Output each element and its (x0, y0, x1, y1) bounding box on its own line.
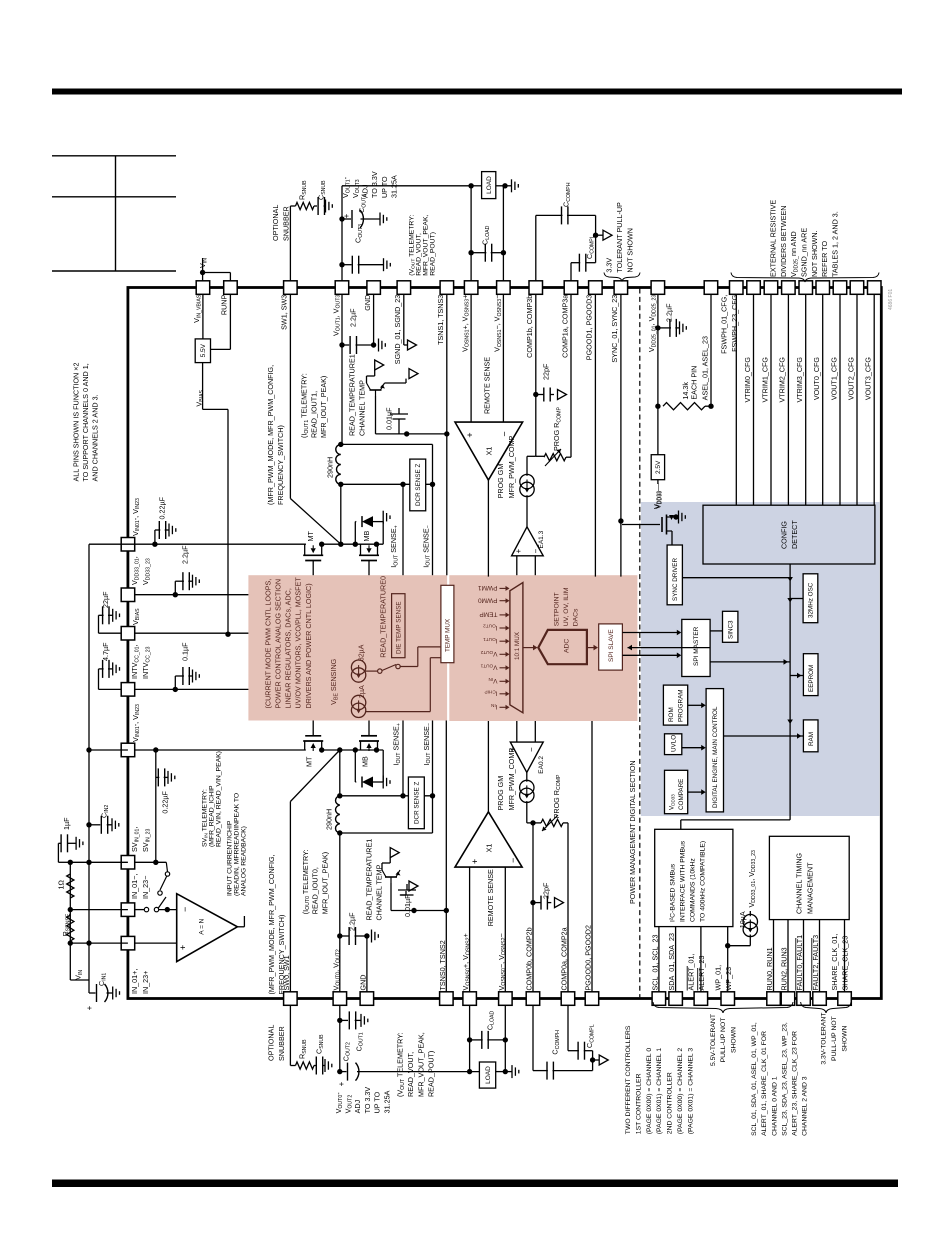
pin SHARE_CLK_01, (838, 992, 852, 1006)
brace 3.3V tolerant group (801, 1002, 851, 1013)
svg-text:DETECT: DETECT (790, 520, 799, 549)
link vin2 to svin (155, 750, 157, 862)
svg-text:DACs: DACs (572, 608, 579, 626)
pin ASEL_01, ASEL_23 (704, 281, 718, 295)
svg-text:MB: MB (362, 531, 371, 542)
svg-text:UP TO: UP TO (380, 176, 389, 198)
wire VIN01 lower rail (135, 749, 306, 751)
svg-text:PULL-UP NOT: PULL-UP NOT (720, 1018, 727, 1063)
pin VIN01-VIN23 (lower) (121, 743, 135, 757)
32MHz OSC box (803, 574, 818, 623)
capacitor COUT2 polarized (340, 1071, 347, 1073)
svg-text:MT: MT (306, 531, 315, 542)
svg-text:LOAD: LOAD (485, 1066, 492, 1084)
svg-text:+: + (514, 549, 523, 554)
svg-text:FREQUENCY_SWITCH): FREQUENCY_SWITCH) (276, 425, 285, 505)
svg-text:EA1.3: EA1.3 (538, 530, 545, 548)
DCR sense loop bottom (340, 795, 433, 797)
wire IN- row (135, 909, 145, 911)
load box top (482, 172, 496, 199)
DCR SENSE Z box top (410, 459, 426, 511)
svg-text:CHANNEL 0 AND 1: CHANNEL 0 AND 1 (771, 1076, 778, 1136)
capacitor 2.2uF vdd25 (658, 327, 671, 329)
svg-text:TO 3.3V: TO 3.3V (363, 1087, 372, 1114)
digital section dashed boundary (639, 289, 641, 998)
svg-text:SYNC DRIVER: SYNC DRIVER (672, 558, 679, 601)
svg-text:FAULT0, FAULT1: FAULT0, FAULT1 (795, 935, 804, 991)
svg-text:UV, OV, ILIM: UV, OV, ILIM (563, 587, 570, 626)
capacitor 0.01uF temp top (375, 396, 377, 434)
svg-text:READ_VIN, READ_VIN_PEAK): READ_VIN, READ_VIN_PEAK) (215, 751, 222, 847)
capacitor CLOAD top (471, 252, 486, 254)
SPI SLAVE box (599, 624, 623, 670)
label VDD33 under 2.5V (657, 480, 659, 484)
DCR SENSE Z box bottom (408, 777, 424, 829)
svg-text:32MHz OSC: 32MHz OSC (808, 582, 815, 618)
capacitor CIN1 polarized (88, 984, 90, 993)
blue digital section block (641, 502, 880, 816)
svg-text:PWM0: PWM0 (478, 597, 498, 604)
pink mux-adc section block (449, 575, 637, 721)
svg-text:PROG GM: PROG GM (496, 776, 505, 811)
svg-text:DCR SENSE Z: DCR SENSE Z (414, 782, 421, 824)
svg-text:5.5V-TOLERANT: 5.5V-TOLERANT (710, 1014, 717, 1066)
capacitor COUT1 (340, 1019, 348, 1021)
TEMP MUX box (441, 585, 454, 662)
pink analog section block (248, 575, 447, 720)
node X line with CCOMPL (595, 215, 597, 262)
RAM box (803, 720, 818, 752)
svg-text:SGND_nn ARE: SGND_nn ARE (800, 228, 809, 277)
COMP1b riser lower segment (535, 294, 537, 456)
pin VIN01-VIN23 (upper) (121, 538, 135, 552)
svin switches (165, 872, 169, 876)
svg-text:(PAGE 0X00) = CHANNEL 2: (PAGE 0X00) = CHANNEL 2 (677, 1048, 684, 1135)
svg-text:+: + (470, 859, 480, 864)
capacitor 2.2uF at VOUT1 inside (342, 344, 349, 346)
svg-text:EXTERNAL RESISTIVE: EXTERNAL RESISTIVE (769, 200, 778, 277)
svg-text:COMP0b, COMP2b: COMP0b, COMP2b (525, 927, 534, 990)
svg-text:FREQUENCY_SWITCH): FREQUENCY_SWITCH) (277, 915, 286, 995)
ground at diode top (382, 522, 384, 545)
PROG RCOMP resistor top (536, 455, 544, 457)
svg-text:VOUT2_CFG: VOUT2_CFG (846, 357, 855, 401)
pin PGOOD0, PGOOD2 (585, 992, 599, 1006)
VDD33 COMPARE box (665, 770, 688, 813)
svg-text:3.3V-TOLERANT: 3.3V-TOLERANT (821, 1013, 828, 1065)
svg-text:MFR_PWM_COMP: MFR_PWM_COMP (507, 436, 516, 499)
svg-text:AND CHANNELS 2 AND 3.: AND CHANNELS 2 AND 3. (91, 394, 100, 481)
wire VIN to RUNP (203, 272, 231, 274)
current source 2uA (351, 695, 365, 709)
capacitor 0.22uF at svin link (156, 776, 160, 778)
DIE TEMP SENSE box (392, 594, 405, 658)
header table lines (52, 155, 176, 157)
wire SW0 to snubber (289, 1005, 291, 1065)
SW node wire bottom (322, 749, 384, 751)
SGND triangle at comp node (596, 234, 603, 236)
svg-text:EEPROM: EEPROM (808, 665, 815, 692)
opamp X1 bottom (455, 812, 522, 867)
pin SW1, SW3 (284, 281, 298, 295)
pin V~OSNS1~+, V~OSNS3~+ (464, 281, 478, 295)
pin V~OSNS0~+, V~OSNS2~+ (463, 992, 477, 1006)
sync gating mosfet (622, 524, 660, 526)
resistor RSNUB bottom (296, 1062, 315, 1069)
svg-text:IN_23+: IN_23+ (141, 971, 150, 994)
SYNC DRIVER box (667, 545, 682, 605)
SPI MASTER box (682, 619, 710, 676)
pin COMP0a, COMP2a (561, 992, 575, 1006)
svg-text:(CURRENT MODE PWM CNTL LOOPS,: (CURRENT MODE PWM CNTL LOOPS, (263, 579, 272, 709)
svg-text:READ_VOUT,: READ_VOUT, (406, 1052, 415, 1097)
DCR sense loop top (341, 443, 433, 445)
svg-text:0.01µF: 0.01µF (403, 894, 412, 917)
svg-text:COMPARE: COMPARE (678, 779, 685, 810)
wire 2uA to temp mux (365, 711, 430, 713)
capacitor CSNUB (314, 205, 317, 207)
svg-text:2.5V: 2.5V (655, 460, 662, 474)
wire VOSNS0- below (504, 1005, 506, 1071)
capacitor 22uF at VBIAS (99, 632, 122, 634)
svg-text:ALERT_01, SHARE_CLK_01 FOR: ALERT_01, SHARE_CLK_01 FOR (761, 1031, 768, 1136)
capacitor 1uF (58, 861, 70, 863)
IN+ row outside (70, 942, 128, 944)
svg-text:READ_IOUT0,: READ_IOUT0, (311, 867, 320, 914)
pin VOUT3_CFG (868, 281, 882, 295)
svg-text:0.22µF: 0.22µF (161, 790, 170, 813)
arrows into digital engine (688, 704, 702, 706)
svg-text:LINEAR REGULATORS, DACs, ADC,: LINEAR REGULATORS, DACs, ADC, (284, 588, 293, 708)
svg-text:SCL_23, SDA_23, ASEL_23, WP_23: SCL_23, SDA_23, ASEL_23, WP_23, (781, 1022, 788, 1136)
pin RUN2, RUN3 (781, 992, 795, 1006)
svg-text:(MFR_PWM_MODE, MFR_PWM_CONFIG,: (MFR_PWM_MODE, MFR_PWM_CONFIG, (266, 365, 275, 505)
pin TSNS0, TSNS2 (440, 992, 454, 1006)
pin WP_01, (721, 992, 735, 1006)
transistor MT top (303, 554, 323, 556)
opamp X1 top (455, 422, 523, 480)
pin V~IN_VBIAS~ (196, 281, 210, 295)
overline ALERT_01 (686, 966, 688, 991)
svg-text:SPI SLAVE: SPI SLAVE (608, 629, 615, 662)
pin IN_01- IN_23- (121, 903, 135, 917)
svg-text:ALERT_23, SHARE_CLK_23 FOR: ALERT_23, SHARE_CLK_23 FOR (792, 1031, 799, 1136)
svg-text:(READIN, MFRREADIINPEAK TO: (READIN, MFRREADIINPEAK TO (233, 793, 240, 896)
svg-text:READ_TEMPERATURE1: READ_TEMPERATURE1 (365, 839, 374, 921)
COMP0b riser (532, 823, 534, 992)
svin row outside (70, 861, 128, 863)
svg-text:2.2µF: 2.2µF (347, 912, 356, 931)
pin TSNS1, TSNS3 (440, 281, 454, 295)
pin VOUT0_CFG (816, 281, 830, 295)
TSNS1 riser (446, 294, 448, 575)
ground after CSNUB bottom (323, 1065, 325, 1067)
SW0 diagonal and riser (289, 802, 291, 992)
temp switch (378, 669, 382, 673)
svg-text:PGOOD1, PGOOD3: PGOOD1, PGOOD3 (585, 295, 594, 361)
svg-text:READ_TEMPERATURE1: READ_TEMPERATURE1 (348, 354, 357, 436)
svg-text:VOUT1_CFG: VOUT1_CFG (829, 357, 838, 401)
svg-text:4686 F01: 4686 F01 (888, 289, 894, 310)
svg-text:OPTIONAL: OPTIONAL (271, 205, 280, 241)
svg-text:IN_01−,: IN_01−, (130, 874, 139, 899)
capacitor CIN2 (89, 824, 100, 826)
ground after COUT3 (358, 264, 384, 266)
run fault shareclk risers (773, 920, 775, 992)
ADC pentagon (538, 630, 587, 664)
wire temp cluster to TSNS1 (376, 433, 447, 435)
svg-text:NOT SHOWN.: NOT SHOWN. (810, 230, 819, 277)
resistor 1 ohm (67, 874, 74, 898)
svg-text:TWO DIFFERENT CONTROLLERS: TWO DIFFERENT CONTROLLERS (625, 1025, 632, 1134)
clock distribution line (682, 577, 790, 579)
svg-text:MT: MT (305, 756, 314, 767)
CONFIG DETECT box (703, 505, 875, 564)
COMP0a riser (567, 823, 569, 992)
svg-text:CONFIG: CONFIG (780, 521, 789, 549)
capacitor CCOMPH top (536, 214, 563, 216)
svg-text:−: − (508, 858, 518, 863)
pin RUN0, RUN1 (767, 992, 781, 1006)
schottky diode bottom (354, 750, 356, 782)
ground after COUT4 (361, 218, 381, 220)
svg-text:UVLO: UVLO (671, 735, 678, 752)
pin VBIAS (121, 627, 135, 641)
svg-text:(PAGE 0X01) = CHANNEL 1: (PAGE 0X01) = CHANNEL 1 (656, 1048, 663, 1135)
SPI master to clock line (710, 661, 790, 663)
pin RUNP (224, 281, 238, 295)
svg-text:CHANNEL TEMP: CHANNEL TEMP (358, 380, 367, 436)
svg-text:SYNC_01, SYNC_23: SYNC_01, SYNC_23 (610, 295, 619, 363)
smbus pin risers (658, 927, 660, 992)
svg-text:TO SUPPORT CHANNELS 0 AND 1,: TO SUPPORT CHANNELS 0 AND 1, (81, 363, 90, 481)
temp sense transistor top (370, 389, 382, 391)
capacitor 2.2uF at VDD33 (174, 581, 176, 595)
svg-text:−: − (527, 747, 536, 752)
ROM PROGRAM box (663, 685, 687, 725)
svg-text:+: + (337, 1081, 346, 1086)
svg-text:MFR_VOUT_PEAK,: MFR_VOUT_PEAK, (416, 1032, 425, 1097)
svg-text:TEMP: TEMP (479, 611, 497, 618)
svg-text:31.25A: 31.25A (382, 1090, 391, 1113)
resistor 14.3k (663, 403, 705, 410)
PROG GM current source top (527, 455, 536, 457)
SGND triangle comp bottom (593, 1059, 600, 1061)
svg-text:VTRIM0_CFG: VTRIM0_CFG (743, 357, 752, 403)
ground after load bottom (505, 1071, 512, 1073)
svg-text:1µF: 1µF (62, 817, 71, 830)
svg-text:22pF: 22pF (542, 882, 551, 899)
svg-text:RUNP: RUNP (220, 295, 229, 316)
PROG GM current source bottom (526, 772, 528, 781)
svg-text:SHARE_CLK_01,: SHARE_CLK_01, (830, 934, 839, 991)
error amp EA0.2 (510, 742, 543, 772)
wire temp cluster to TSNS0 (391, 910, 446, 912)
wire VOUT0 riser inside (339, 833, 341, 992)
wire SW1 pin riser and diagonal (289, 294, 291, 498)
wire VDD33 pin row (135, 594, 249, 596)
pin SGND_01, SGND_23 (397, 281, 411, 295)
EA0.2 input wires (516, 721, 518, 742)
IOUT sense lines into analog bottom (402, 721, 404, 796)
capacitor CCOMPH bottom (533, 1070, 548, 1072)
svg-text:DIVIDERS BETWEEN: DIVIDERS BETWEEN (779, 206, 788, 278)
svg-text:TO 400kHz COMPATIBLE): TO 400kHz COMPATIBLE) (699, 841, 706, 922)
svg-text:X1: X1 (485, 844, 494, 853)
svg-text:WP_01,: WP_01, (713, 965, 722, 991)
svg-text:REMOTE SENSE: REMOTE SENSE (486, 869, 495, 926)
svg-text:SHOWN: SHOWN (841, 1025, 848, 1051)
wire VOUT1 vertical line (341, 186, 343, 281)
capacitor 2.2uF at VOUT0 inside (340, 935, 349, 937)
arrow adc to spi slave (587, 647, 594, 649)
capacitor CSNUB bottom (314, 1065, 316, 1067)
svg-text:0.01µF: 0.01µF (385, 407, 394, 430)
pin INTVCC_01 INTVCC_23 (121, 683, 135, 697)
svg-text:SW1, SW3: SW1, SW3 (280, 295, 289, 330)
svg-text:SCL_01, SCL_23: SCL_01, SCL_23 (651, 935, 660, 991)
wire VOSNS0+ below (469, 1005, 471, 1071)
schottky diode top (354, 522, 356, 545)
pin VDD33_01 VDD33_23 (121, 588, 135, 602)
svg-text:POWER CONTROL ANALOG SECTION: POWER CONTROL ANALOG SECTION (273, 579, 282, 709)
svg-text:GND: GND (359, 975, 368, 991)
pin SVIN_01 SVIN_23 (121, 856, 135, 870)
wire VOUT1 riser inside (341, 294, 343, 444)
svg-text:SDA_01, SDA_23: SDA_01, SDA_23 (667, 933, 676, 991)
pin FAULT2, FAULT3 (813, 992, 827, 1006)
svg-text:SNUBBER: SNUBBER (282, 206, 291, 241)
svg-text:3.3V: 3.3V (604, 258, 613, 273)
wire VOSNS1- line upper (502, 186, 504, 281)
wire IN+ row (135, 942, 177, 944)
svg-text:COMP1a, COMP3a: COMP1a, COMP3a (560, 295, 569, 358)
DIGITAL ENGINE box (706, 689, 723, 812)
capacitor 0.1uF inside (173, 687, 178, 692)
svg-text:EACH PIN: EACH PIN (690, 366, 699, 400)
svg-text:OPTIONAL: OPTIONAL (267, 1025, 276, 1061)
inductor 290nH bottom (339, 750, 341, 796)
ground at diode bottom (382, 750, 384, 782)
wire VIN01 upper rail (135, 543, 306, 545)
svg-text:SINC3: SINC3 (728, 620, 735, 639)
svg-text:1ST CONTROLLER: 1ST CONTROLLER (635, 1073, 642, 1134)
svg-text:REMOTE SENSE: REMOTE SENSE (483, 357, 492, 414)
pin VOUT2_CFG (850, 281, 864, 295)
capacitor CCOMPL bottom (567, 1005, 569, 1050)
current source 32uA (351, 660, 365, 674)
wire VOSNS1+ line upper (470, 186, 472, 281)
svg-text:TOLERANT PULL-UP: TOLERANT PULL-UP (615, 202, 624, 273)
svg-text:ADJ: ADJ (353, 1099, 362, 1113)
svg-text:A = N: A = N (198, 918, 205, 934)
pin VOUT1_CFG (833, 281, 847, 295)
svg-text:2.2µF: 2.2µF (664, 303, 673, 322)
svg-text:EA0.2: EA0.2 (538, 756, 545, 774)
wire VBIAS from 5.5V to pink (202, 363, 204, 410)
svg-text:10µA: 10µA (738, 911, 747, 928)
PGOOD1 riser (594, 294, 596, 576)
svg-text:X1: X1 (485, 447, 494, 456)
2.5V regulator box (651, 455, 664, 480)
svg-text:SPI MASTER: SPI MASTER (693, 626, 700, 666)
svg-text:(PAGE 0X00) = CHANNEL 0: (PAGE 0X00) = CHANNEL 0 (646, 1048, 653, 1135)
pin V~DD25_01~, V~DD25_23~ (651, 281, 665, 295)
opamp A=N input sense (177, 894, 238, 962)
svg-text:MANAGEMENT: MANAGEMENT (806, 862, 815, 914)
svg-text:CHANNEL 2 AND 3: CHANNEL 2 AND 3 (802, 1076, 809, 1136)
svg-text:+: + (342, 213, 351, 218)
svg-text:MB: MB (361, 756, 370, 767)
COMP1a riser (570, 294, 572, 457)
pin SYNC_01, SYNC_23 (614, 281, 628, 295)
svg-text:31.25A: 31.25A (390, 175, 399, 198)
capacitor 22pF top (536, 394, 544, 396)
svg-text:VTRIM1_CFG: VTRIM1_CFG (760, 357, 769, 403)
svg-text:(MFR_READ_ICHIP: (MFR_READ_ICHIP (208, 785, 215, 847)
svg-text:PROGRAM: PROGRAM (677, 689, 684, 722)
X1 input wires top (470, 294, 472, 422)
wire RUNP to 5.5V box (229, 294, 231, 349)
svg-text:ALERT_01,: ALERT_01, (687, 953, 696, 990)
svg-text:DCR SENSE Z: DCR SENSE Z (415, 464, 422, 506)
X1 output wire top (487, 480, 489, 577)
EA1.3 input wires (516, 556, 518, 575)
pin PGOOD1, PGOOD3 (589, 281, 603, 295)
svg-text:VTRIM2_CFG: VTRIM2_CFG (778, 357, 787, 403)
svg-text:VOUT0_CFG: VOUT0_CFG (812, 357, 821, 401)
10uA pullup current source (728, 945, 751, 947)
comp node line bottom (592, 1051, 594, 1071)
IOUT sense lines into analog top (402, 484, 404, 575)
svg-text:UV/OV MONITORS, VCO/PLL, MOSFE: UV/OV MONITORS, VCO/PLL, MOSFET (294, 577, 303, 709)
svg-text:MFR_PWM_COMP: MFR_PWM_COMP (507, 748, 516, 811)
IN- row outside (70, 909, 128, 911)
pin COMP1b, COMP3b (529, 281, 543, 295)
svg-text:SGND_01, SGND_23: SGND_01, SGND_23 (393, 295, 402, 365)
arrow mux to adc (523, 647, 533, 649)
PGOOD0 riser (591, 721, 593, 992)
capacitor COUT3 (342, 264, 352, 266)
svg-text:MFR_IOUT_PEAK): MFR_IOUT_PEAK) (320, 852, 329, 914)
svg-text:TABLES 1, 2 AND 3.: TABLES 1, 2 AND 3. (830, 211, 839, 277)
error amp EA1.3 (526, 495, 528, 527)
svg-text:INPUT CURRENT/ICHIP: INPUT CURRENT/ICHIP (226, 820, 233, 896)
brace cfg pins (731, 273, 879, 283)
pin V~OUT1~, V~OUT3~ (335, 281, 349, 295)
wire VBIAS pin row (135, 632, 249, 634)
svg-text:CHANNEL TEMP: CHANNEL TEMP (375, 864, 384, 920)
transistor MT bottom (303, 740, 323, 742)
svg-text:0.22µF: 0.22µF (158, 496, 167, 519)
brace 5.5V tolerant group (653, 1002, 793, 1013)
svg-text:2.2µF: 2.2µF (348, 308, 357, 327)
svg-text:SCL_01, SDA_01, ASEL_01, WP_01: SCL_01, SDA_01, ASEL_01, WP_01, (751, 1022, 758, 1136)
SW node wire top (322, 543, 384, 545)
svg-text:(PAGE 0X01) = CHANNEL 3: (PAGE 0X01) = CHANNEL 3 (687, 1048, 694, 1135)
svg-text:SNUBBER: SNUBBER (277, 1026, 286, 1061)
svg-text:(MFR_PWM_MODE, MFR_PWM_CONFIG,: (MFR_PWM_MODE, MFR_PWM_CONFIG, (267, 854, 276, 994)
svg-text:2.2µF: 2.2µF (181, 545, 190, 564)
TSNS0 riser (445, 721, 447, 992)
pin VTRIM2_CFG (782, 281, 796, 295)
svg-text:5.5V: 5.5V (200, 343, 207, 357)
svg-text:ADC: ADC (563, 639, 570, 653)
capacitor CLOAD bottom (470, 1039, 483, 1041)
svg-text:POWER MANAGEMENT DIGITAL SECTI: POWER MANAGEMENT DIGITAL SECTION (628, 760, 637, 904)
overline FAULT labels (795, 938, 797, 991)
resistor RSENSE (67, 915, 74, 941)
